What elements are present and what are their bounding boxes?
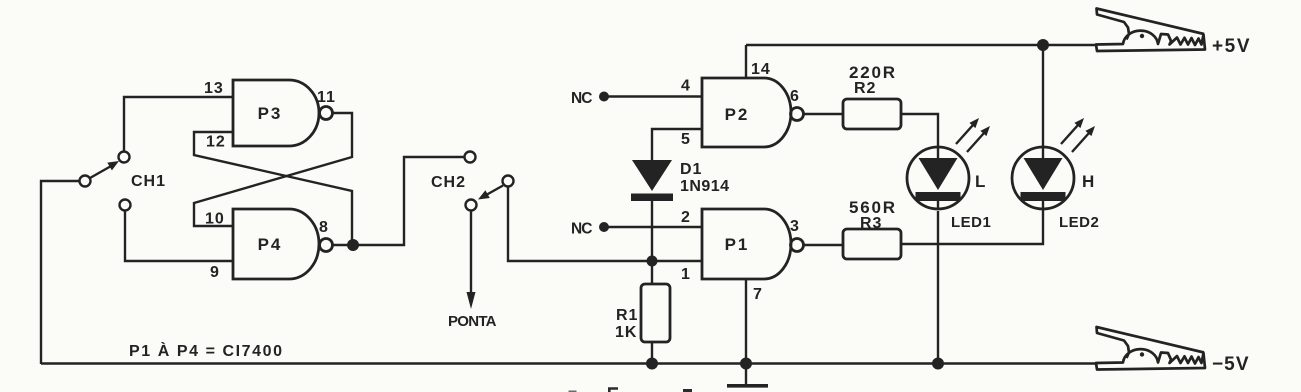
cropped caption fragment 1 (569, 391, 577, 392)
wire P1 output pin 3 to R3 (804, 244, 844, 246)
svg-text:2: 2 (681, 209, 691, 226)
svg-text:P1 À P4 = CI7400: P1 À P4 = CI7400 (129, 341, 283, 360)
junction node pin7 at rail (740, 358, 752, 370)
switch CH2 contact lower-left (466, 200, 477, 211)
svg-text:1K: 1K (615, 324, 637, 341)
resistor R2 220R (843, 99, 901, 129)
svg-text:R2: R2 (854, 80, 876, 97)
cropped caption fragment 3 (683, 389, 692, 392)
diode D1 1N914 (631, 160, 673, 201)
NC node pin 4 (599, 92, 609, 102)
junction node LED2 at +5V rail (1037, 39, 1049, 51)
svg-text:10: 10 (205, 211, 225, 228)
wire D1 cathode to junction (651, 201, 653, 261)
svg-text:8: 8 (319, 219, 329, 236)
wire P2 pin 5 to D1 anode (652, 129, 702, 160)
wire NC to P1 pin 2 (604, 226, 702, 228)
LED1 light arrow 2 (967, 126, 990, 152)
wire P2 pin 14 to +5V rail (745, 45, 747, 78)
svg-text:11: 11 (317, 89, 336, 106)
gate P1 (NAND) (702, 209, 791, 279)
svg-text:LED1: LED1 (951, 214, 991, 231)
svg-text:1: 1 (681, 266, 691, 283)
bubble P3 output (320, 107, 333, 120)
bubble P2 output (791, 108, 804, 121)
wire R1 to -5V rail (651, 342, 653, 364)
switch CH1 contact upper (119, 152, 130, 163)
alligator clip +5V (1096, 9, 1205, 52)
svg-text:NC: NC (571, 221, 593, 238)
wire P1 pin 7 to -5V rail (745, 279, 747, 364)
switch CH1 contact lower (120, 200, 131, 211)
svg-text:12: 12 (206, 134, 226, 151)
LED2 light arrow 2 (1072, 126, 1095, 152)
svg-text:R3: R3 (860, 215, 882, 232)
svg-text:PONTA: PONTA (448, 313, 497, 330)
LED1 (907, 146, 969, 210)
junction node R1 at rail (646, 358, 658, 370)
svg-text:3: 3 (790, 218, 800, 235)
wire -5V rail (41, 362, 1097, 364)
svg-text:9: 9 (210, 264, 220, 281)
switch CH2 contact right (503, 176, 514, 187)
svg-text:LED2: LED2 (1059, 214, 1099, 231)
wire CH1 lower to P4 pin 9 (125, 211, 233, 262)
ground (727, 364, 768, 386)
bubble P4 output (320, 239, 333, 252)
wire P2 output pin 6 to R2 (804, 113, 844, 115)
alligator clip -5V (1096, 327, 1205, 370)
junction node probe net (647, 256, 658, 267)
wire P4 output cross-coupled to P3 pin 12 (194, 132, 352, 245)
LED2 light arrow 1 (1061, 118, 1084, 144)
NC node pin 2 (599, 222, 609, 232)
gate P4 (NAND) (233, 209, 319, 279)
svg-text:P3: P3 (258, 104, 283, 123)
svg-text:4: 4 (681, 78, 691, 95)
wire R3 to LED2 cathode (901, 210, 1043, 244)
svg-text:5: 5 (681, 131, 691, 148)
wire CH2 right contact to P1 pin 1 (508, 187, 702, 262)
switch CH2 arrow (478, 186, 503, 200)
wire LED1 cathode to -5V rail (937, 211, 939, 364)
svg-text:CH1: CH1 (131, 173, 166, 190)
svg-text:13: 13 (204, 80, 224, 97)
svg-text:+5V: +5V (1212, 36, 1251, 57)
wire +5V rail (746, 44, 1097, 46)
wire CH1 upper to P3 pin 13 (124, 97, 233, 152)
gate P2 (NAND) (702, 78, 791, 147)
svg-text:D1: D1 (680, 161, 702, 178)
wire R2 to LED1 anode (901, 114, 938, 146)
switch CH1 arrow (90, 161, 119, 178)
LED1 light arrow 1 (956, 118, 979, 144)
svg-text:−5V: −5V (1212, 354, 1250, 375)
svg-text:P1: P1 (725, 235, 750, 254)
wire P3 output pin 11 cross-coupled to P4 pin 10 (194, 113, 352, 226)
cropped caption fragment 2 (608, 389, 618, 392)
svg-text:7: 7 (753, 286, 763, 303)
wire NC to P2 pin 4 (604, 95, 702, 97)
wire left vertical from CH1 to -5V rail (41, 181, 79, 364)
gate P3 (NAND) (233, 80, 319, 146)
resistor R3 560R (843, 229, 901, 259)
svg-text:P4: P4 (258, 235, 283, 254)
resistor R1 (641, 284, 670, 342)
bubble P1 output (791, 239, 804, 252)
svg-text:L: L (975, 172, 987, 191)
svg-text:6: 6 (790, 88, 800, 105)
wire junction to R1 (651, 261, 653, 284)
wire +5V rail to LED2 anode (1042, 45, 1044, 146)
switch CH1 contact left (80, 176, 91, 187)
svg-text:CH2: CH2 (431, 174, 466, 191)
svg-text:H: H (1082, 172, 1096, 191)
probe PONTA arrow (467, 211, 476, 310)
LED2 (1012, 146, 1074, 210)
svg-text:1N914: 1N914 (680, 178, 729, 195)
junction node LED1 at rail (932, 358, 944, 370)
svg-text:P2: P2 (725, 105, 750, 124)
svg-text:14: 14 (751, 61, 771, 78)
wire P4 output pin 8 to CH2 (333, 157, 465, 245)
junction node P4 output (347, 239, 359, 251)
switch CH2 contact top (465, 152, 476, 163)
svg-text:R1: R1 (616, 307, 638, 324)
svg-text:NC: NC (571, 90, 593, 107)
